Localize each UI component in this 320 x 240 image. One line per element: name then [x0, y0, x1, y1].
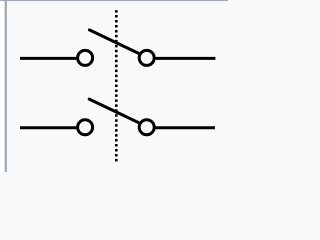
- wire right terminal S2: [155, 126, 215, 129]
- dotted linkage line: [115, 10, 118, 161]
- node right contact circle S1: [139, 50, 154, 65]
- switch lever S2: [89, 99, 140, 123]
- left border line: [5, 0, 7, 172]
- white strip left of border: [0, 1, 5, 172]
- node left contact circle S2: [78, 120, 93, 135]
- wire left terminal S2: [20, 126, 78, 129]
- wire left terminal S1: [20, 57, 78, 60]
- switch lever S1: [89, 30, 140, 54]
- node left contact circle S1: [78, 50, 93, 65]
- node right contact circle S2: [139, 120, 154, 135]
- wire right terminal S1: [155, 57, 215, 60]
- top border line: [0, 0, 228, 1]
